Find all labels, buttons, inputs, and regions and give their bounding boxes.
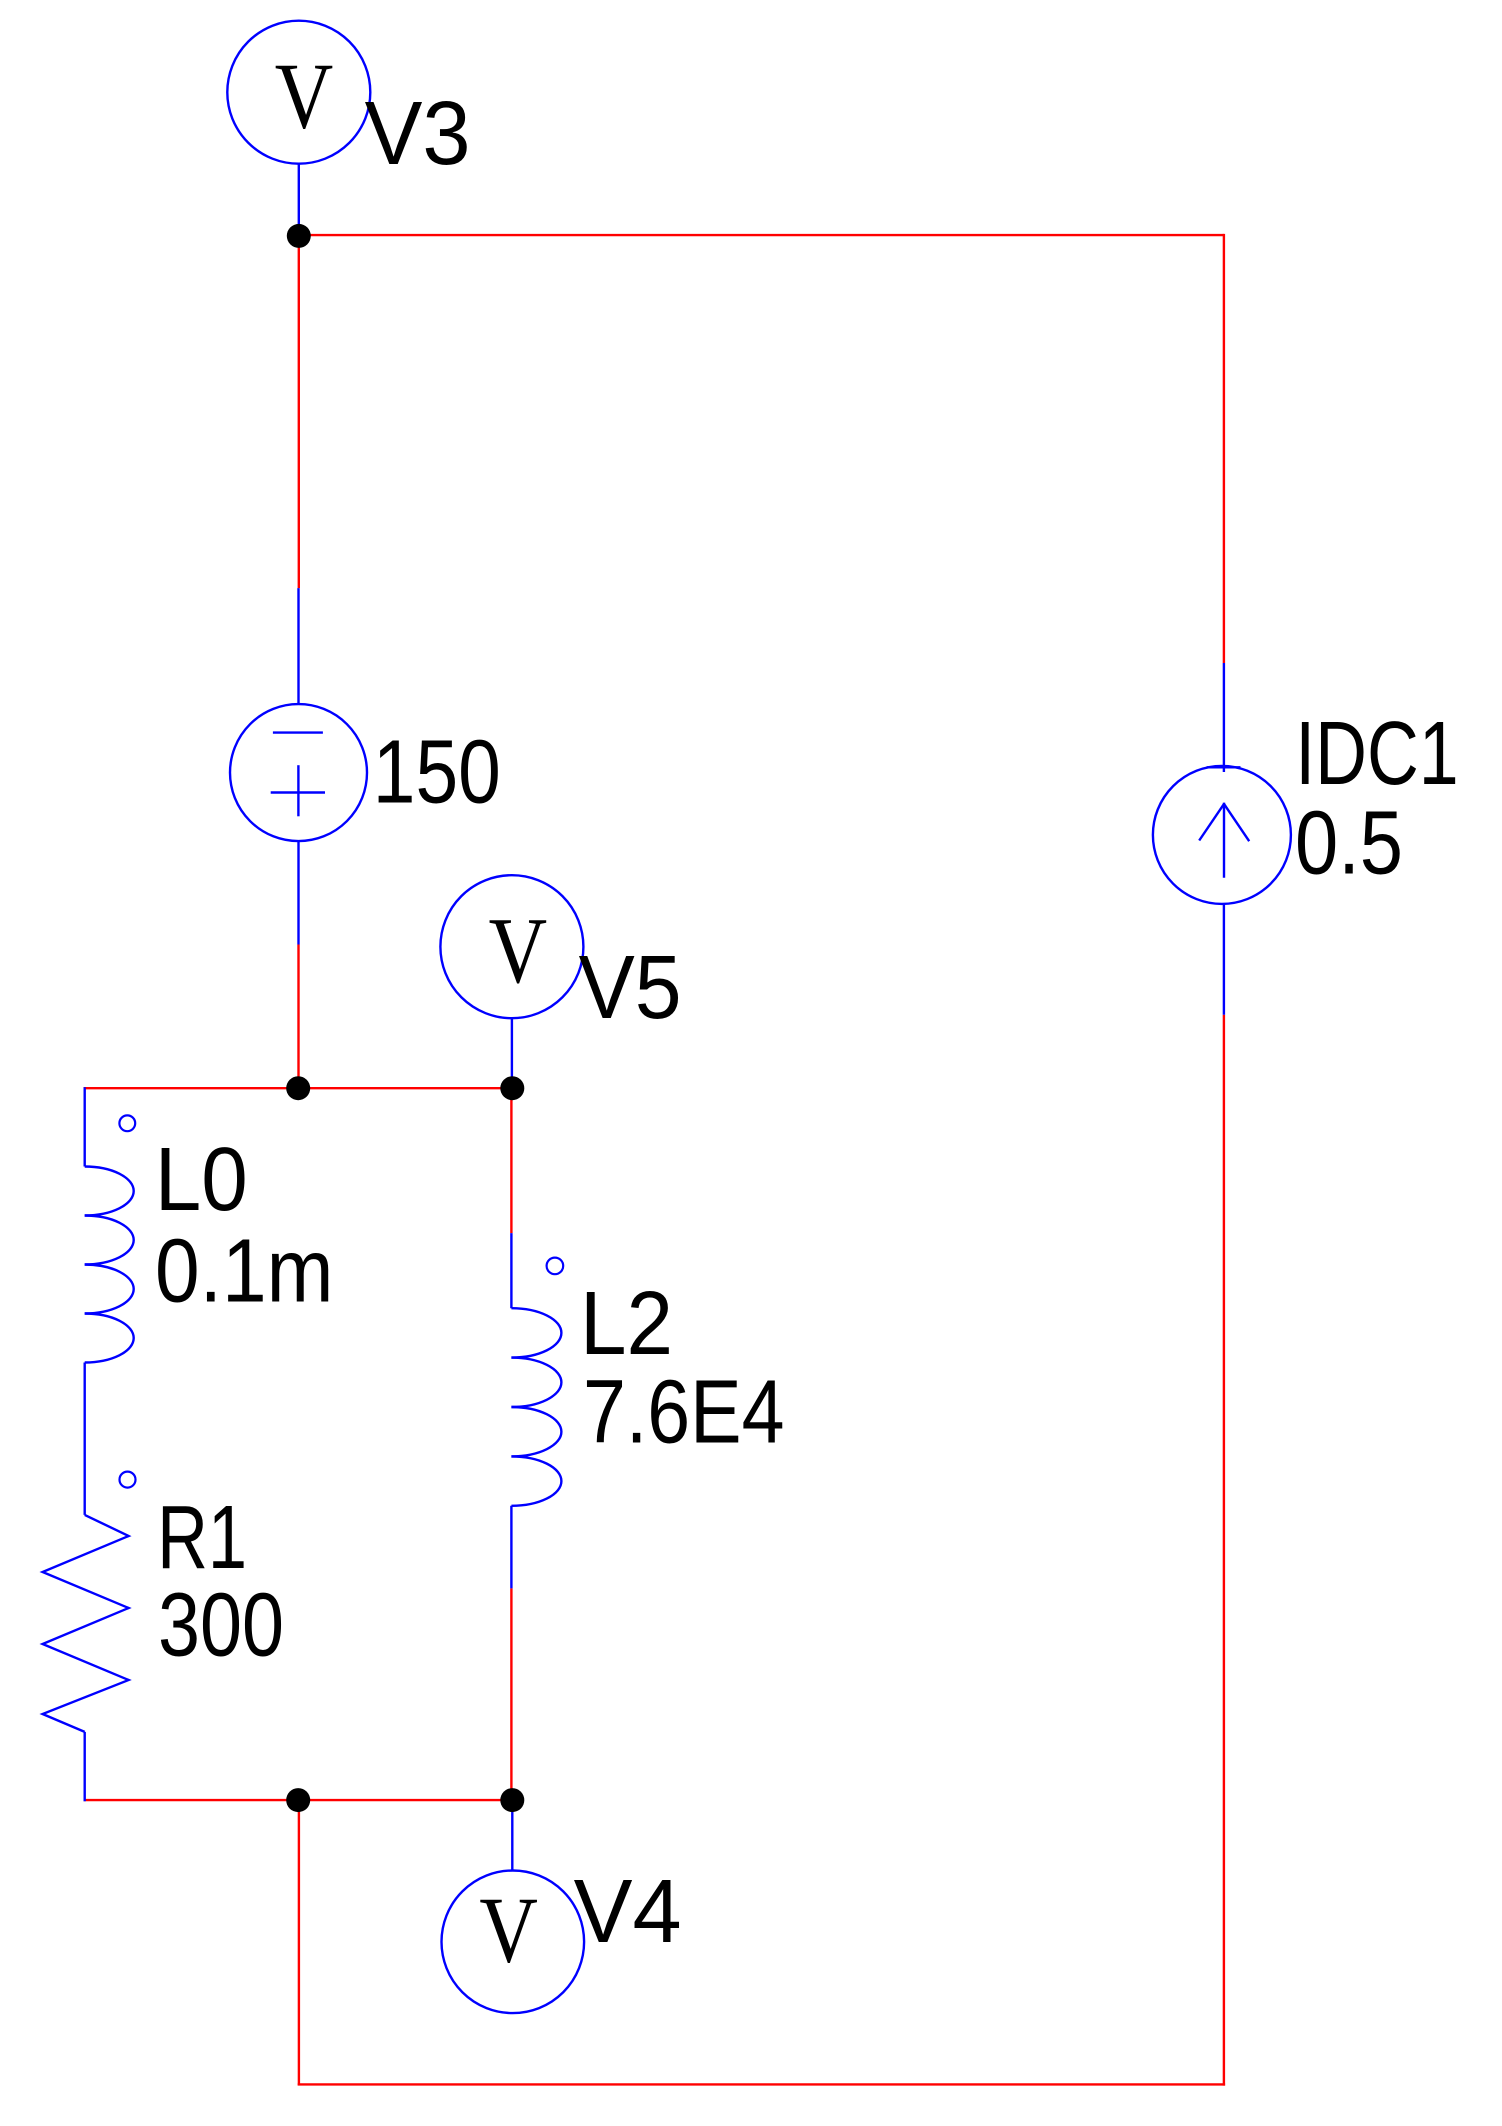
wire 150 source down to mid rail [297,945,299,1089]
svg-text:V3: V3 [365,84,471,184]
wire V3 node down to 150 source [298,235,300,588]
wire bottom rail [298,2083,1225,2085]
wire bottom-left vertical [298,1800,300,2085]
junction node at V3 [287,224,311,248]
junction node bottom-left [286,1788,310,1812]
resistor R1 [43,1472,136,1802]
wire L2 bottom [510,1588,512,1800]
voltmeter V3 [227,21,370,236]
svg-text:V: V [275,45,334,149]
inductor L2 [511,1233,563,1588]
svg-text:0.1m: 0.1m [155,1222,334,1322]
voltmeter V4 [442,1800,585,2013]
junction node bottom-right [500,1788,524,1812]
wire bottom mid rail node0 [84,1799,513,1801]
svg-text:V: V [479,1878,538,1982]
svg-text:300: 300 [158,1576,284,1676]
svg-text:L0: L0 [155,1130,248,1230]
dc voltage source 150 [230,588,367,944]
dc current source IDC1 [1153,663,1291,1015]
svg-text:0.5: 0.5 [1295,794,1403,894]
svg-text:R1: R1 [157,1488,247,1588]
wire right rail lower [1223,1015,1225,2086]
voltmeter V5 [440,875,583,1088]
inductor L0 [85,1087,136,1515]
junction node mid-left [286,1076,310,1100]
svg-text:V4: V4 [574,1862,682,1962]
svg-text:V5: V5 [579,938,682,1038]
wire top rail node1 [299,234,1224,236]
wire L2 top [510,1088,512,1233]
svg-text:150: 150 [373,723,501,823]
svg-text:7.6E4: 7.6E4 [583,1363,785,1463]
wire right rail upper [1223,234,1225,663]
svg-text:V: V [489,899,548,1003]
svg-text:IDC1: IDC1 [1295,704,1459,804]
wire mid rail node2 [84,1087,513,1089]
junction node mid-right [500,1076,524,1100]
svg-text:L2: L2 [580,1274,673,1374]
